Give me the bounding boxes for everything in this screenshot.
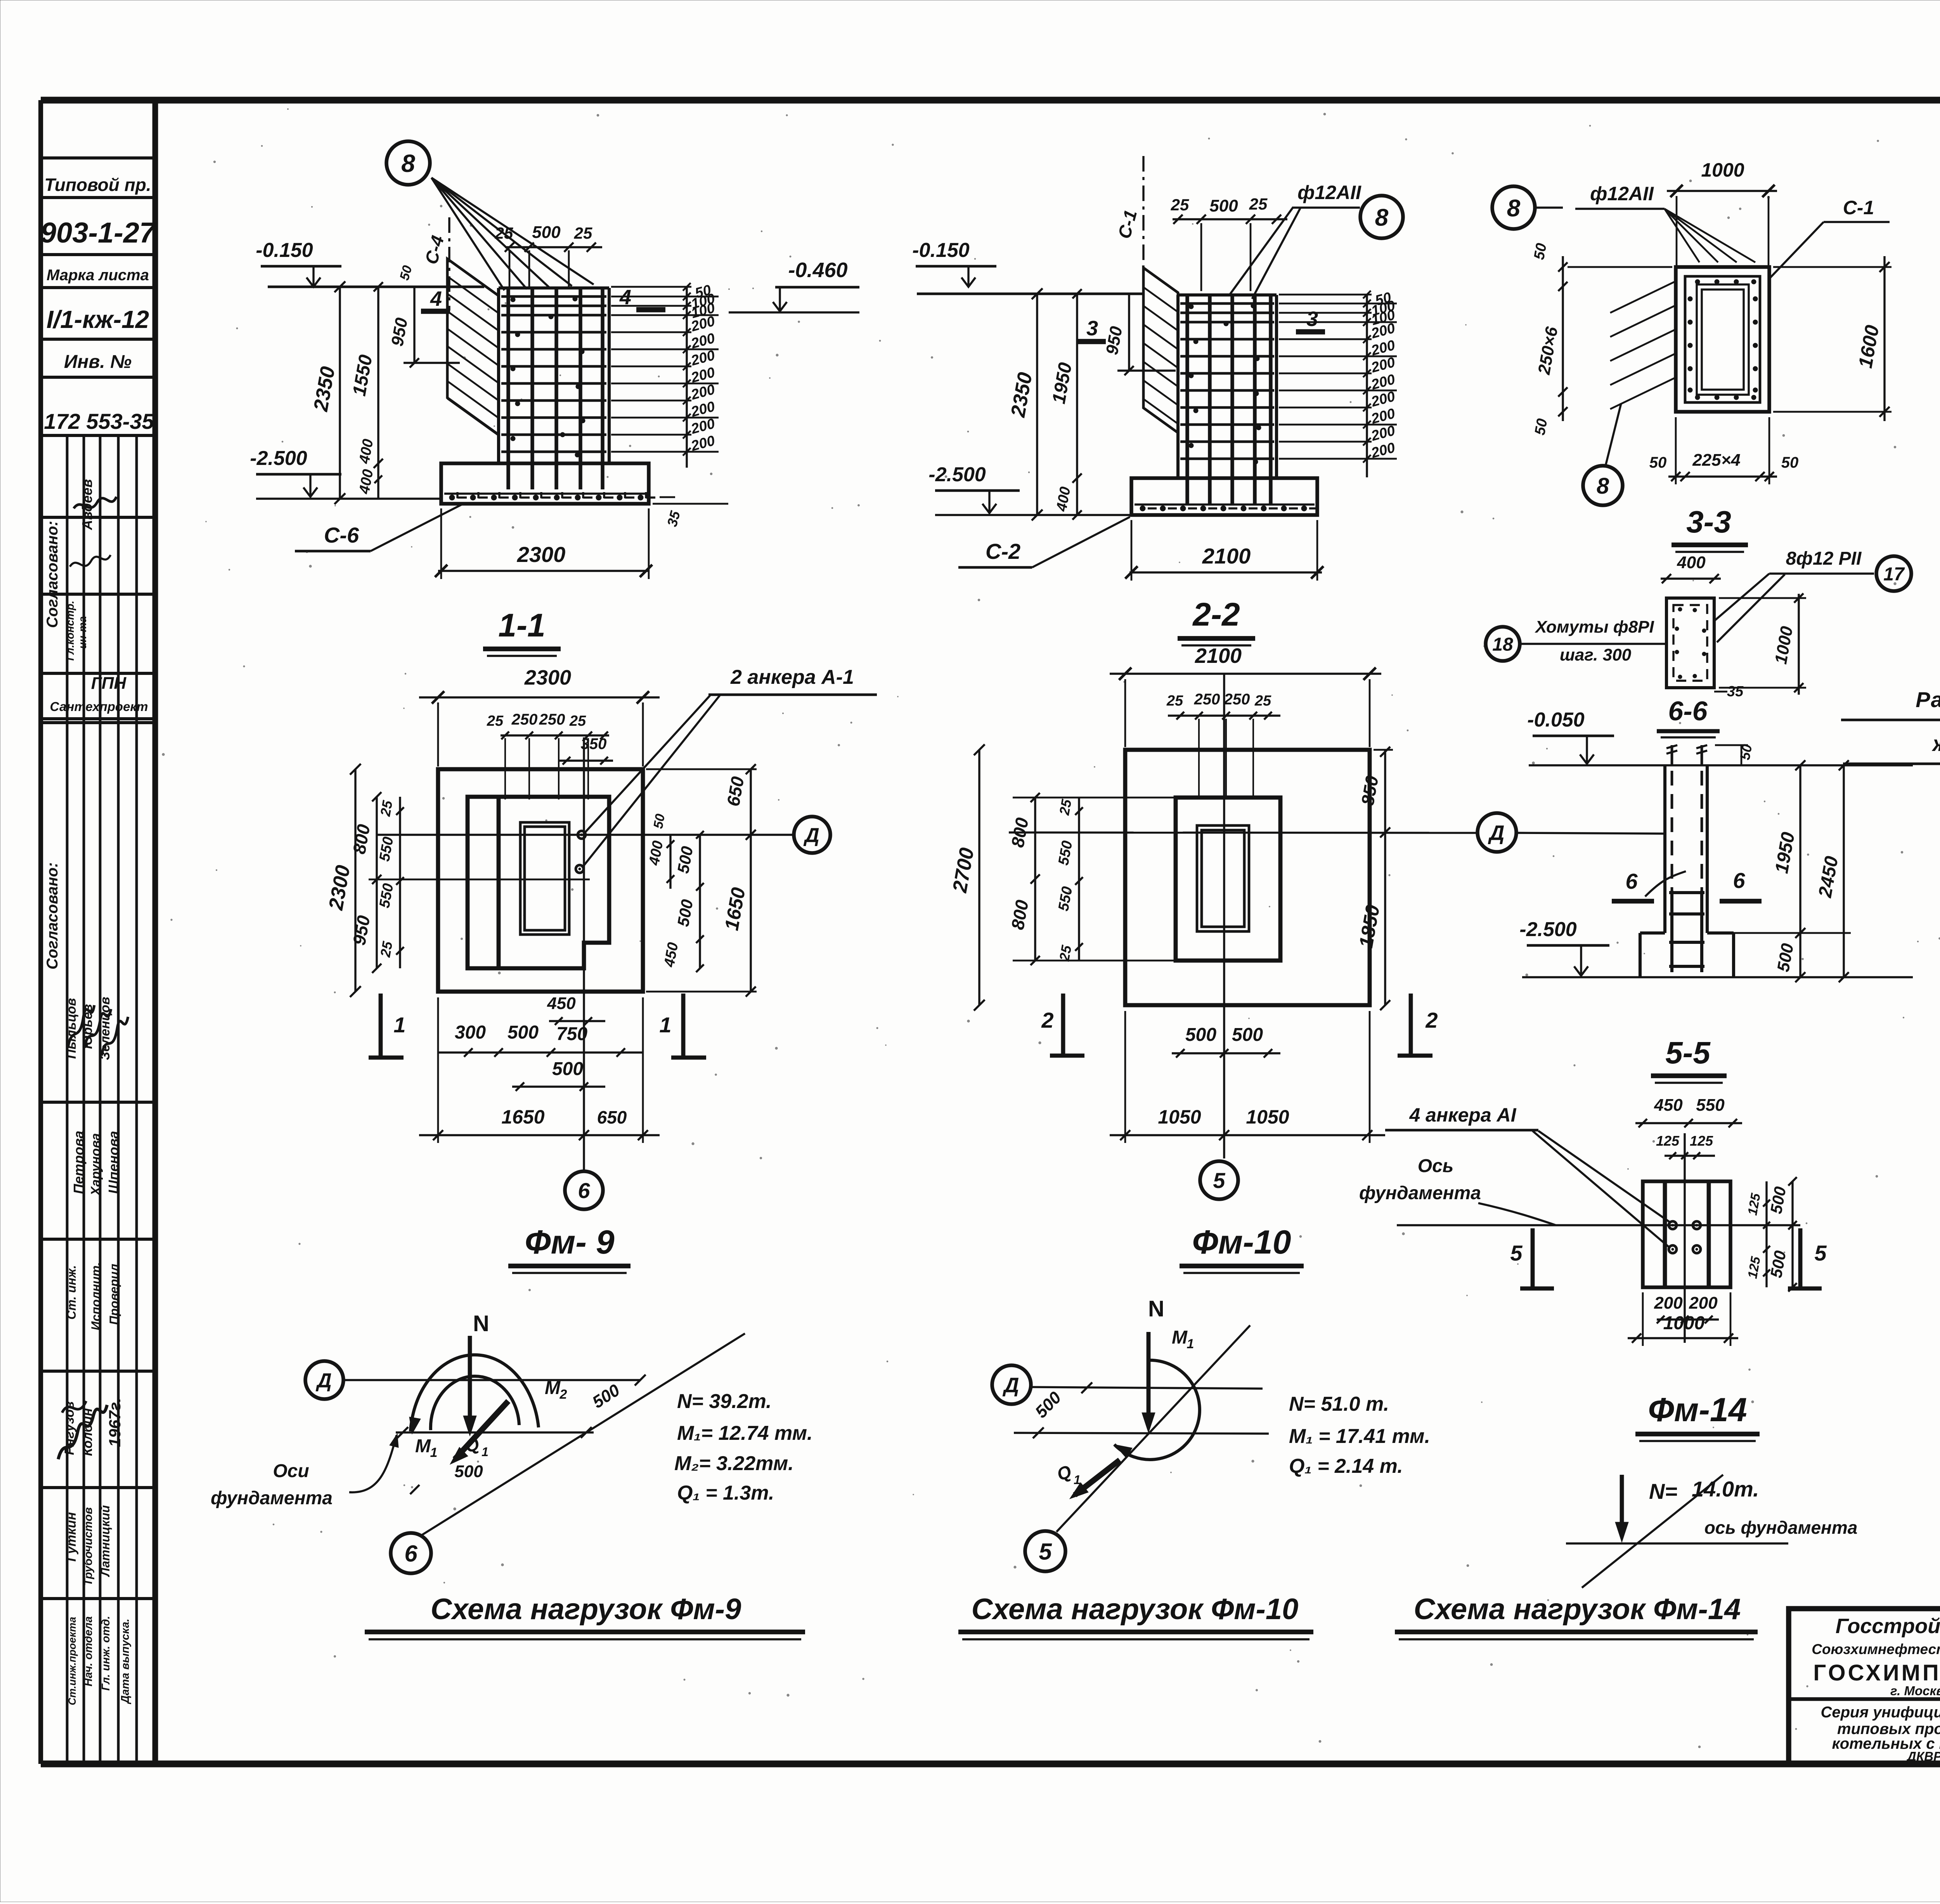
svg-text:С-6: С-6 [324,523,359,547]
svg-text:ГОСХИМПРОЕКТ: ГОСХИМПРОЕКТ [1813,1660,1940,1686]
section 1-1: soil hatch band [447,259,499,435]
svg-text:8ф12 РII: 8ф12 РII [1786,548,1862,569]
scheme Фм-9: axis circle 6 [391,1533,431,1573]
plan Фм-14: section cut 5 marks [1531,1228,1535,1288]
svg-text:5: 5 [1510,1241,1523,1265]
section 2-2: footing [1131,478,1317,515]
svg-text:М: М [415,1436,431,1457]
svg-text:Q₁ = 2.14 т.: Q₁ = 2.14 т. [1289,1455,1403,1477]
svg-text:4: 4 [619,286,631,309]
section 2-2: left vertical dims [1036,294,1038,515]
svg-text:-2.500: -2.500 [250,447,307,470]
svg-text:Схема нагрузок Фм-10: Схема нагрузок Фм-10 [972,1593,1299,1626]
svg-text:25: 25 [1166,693,1183,709]
svg-text:г. Москва: г. Москва [1890,1684,1940,1698]
plan Фм-10: section cut 2 marks [1061,994,1065,1056]
scheme Фм-9: moment arcs [411,1355,539,1431]
svg-text:Марка листа: Марка листа [47,267,149,284]
svg-text:450: 450 [547,994,576,1013]
svg-text:3: 3 [1086,317,1098,340]
svg-text:Схема нагрузок Фм-9: Схема нагрузок Фм-9 [431,1593,741,1626]
svg-text:2: 2 [1425,1008,1438,1032]
section 5-5: pedestal outline [1663,765,1666,933]
svg-text:Д: Д [803,824,819,847]
section 3-3: column section outer [1676,267,1769,412]
svg-text:1: 1 [1187,1337,1194,1351]
svg-text:Гл.констр.: Гл.констр. [64,601,76,661]
svg-text:200: 200 [1654,1294,1683,1313]
section 5-5: anchor bolts [1671,745,1673,765]
section 1-1: column outline [499,286,609,290]
svg-text:Петрова: Петрова [71,1131,87,1194]
plan Фм-14: anchor circles [1669,1221,1677,1229]
svg-text:25: 25 [377,799,396,818]
svg-text:Пыльцов: Пыльцов [64,998,79,1059]
section 1-1: rebar dots [511,297,515,302]
svg-text:С-1: С-1 [1843,197,1874,218]
svg-text:Нач. отдела: Нач. отдела [82,1616,95,1687]
svg-text:Согласовано:: Согласовано: [44,521,61,628]
scheme Фм-14: N arrow and value [1620,1475,1624,1528]
svg-text:25: 25 [1056,798,1075,817]
svg-text:250: 250 [1194,691,1220,708]
svg-text:1: 1 [659,1013,671,1037]
section 5-5: footing [1640,931,1665,935]
svg-text:50: 50 [1781,454,1799,471]
svg-text:ин-та: ин-та [76,616,88,649]
svg-text:Проверил: Проверил [107,1264,121,1325]
sidebar stamp column [41,156,155,160]
svg-text:М₁= 12.74 тм.: М₁= 12.74 тм. [677,1422,812,1444]
svg-text:ГПН: ГПН [91,674,127,693]
svg-text:6: 6 [1733,868,1745,893]
svg-text:1967г.: 1967г. [106,1398,124,1447]
section 3-3: soil hatch left [1610,282,1675,313]
svg-text:200: 200 [1689,1294,1718,1313]
section 2-2: tie spacing ladder [1366,295,1368,477]
svg-text:1650: 1650 [501,1106,544,1128]
svg-text:Д: Д [315,1370,332,1392]
plan Фм-10: column footprint [1176,798,1280,961]
plan Фм-9: left dims [354,769,356,992]
svg-text:2-2: 2-2 [1192,596,1240,633]
svg-text:4 анкера АI: 4 анкера АI [1409,1104,1516,1126]
svg-text:4: 4 [430,287,442,310]
section 1-1: tie spacing ladder [686,287,688,468]
section 3-3: callout 8 and rebar mark [1492,186,1535,229]
svg-text:2100: 2100 [1202,544,1251,568]
svg-text:Фм- 9: Фм- 9 [525,1224,614,1261]
svg-text:17: 17 [1883,564,1905,584]
svg-text:3-3: 3-3 [1686,505,1731,539]
svg-text:Расход бетона и стали н: Расход бетона и стали на монолитные [1916,687,1940,712]
svg-text:8: 8 [401,149,415,177]
title block outer [1789,1609,1940,1764]
svg-text:400: 400 [1677,553,1706,572]
svg-text:ось фундамента: ось фундамента [1704,1517,1858,1538]
plan Фм-9: opening double rect [520,822,569,935]
scheme Фм-10: axis circle 5 [1025,1531,1065,1571]
svg-text:6: 6 [578,1178,590,1203]
svg-text:250: 250 [539,711,565,728]
plan Фм-10: axis circle 5 [1200,1161,1238,1199]
svg-text:Сантехпроект: Сантехпроект [50,699,148,714]
svg-text:8: 8 [1597,473,1609,499]
plan Фм-14: axes [1397,1224,1800,1226]
svg-text:Дата выпуска.: Дата выпуска. [119,1619,132,1705]
section 3-3: left dims 250x6 [1562,256,1564,421]
svg-text:Шпенова: Шпенова [106,1131,121,1194]
sidebar signature table rows [41,516,155,519]
svg-text:Типовой пр.: Типовой пр. [44,175,151,195]
section 2-2: section cut 3 marks [1077,339,1106,344]
svg-text:фундамента: фундамента [1359,1183,1481,1203]
svg-text:С-2: С-2 [986,539,1020,564]
section 2-2: column ties [1180,302,1274,305]
plan Фм-9: axis circle 6 [565,1171,603,1209]
svg-text:Оси: Оси [273,1461,309,1481]
section 1-1: ground line [268,286,484,288]
svg-text:Ст. инж.: Ст. инж. [64,1265,78,1320]
svg-text:500: 500 [1185,1025,1216,1045]
svg-text:-2.500: -2.500 [928,463,986,486]
svg-text:125: 125 [1656,1133,1680,1149]
plan Фм-9: anchor circles [578,831,585,839]
section 5-5: rebar dashed bars [1671,771,1673,891]
svg-text:50: 50 [651,813,668,830]
svg-text:1050: 1050 [1158,1106,1201,1128]
svg-text:1: 1 [482,1445,488,1459]
scheme Фм-10: second axis line [1014,1433,1269,1434]
section 5-5: rebar ladder [1670,891,1673,972]
svg-text:8: 8 [1507,195,1521,222]
section 2-2: rebar dots [1189,304,1193,309]
svg-text:50: 50 [1649,454,1667,471]
section 5-5: axis line from Д circle [1516,833,1665,834]
svg-text:М₂= 3.22тм.: М₂= 3.22тм. [674,1452,794,1475]
svg-text:5-5: 5-5 [1665,1035,1711,1070]
svg-text:2: 2 [1041,1008,1053,1032]
plan Фм-10: left dims [978,750,980,1005]
svg-text:N= 39.2т.: N= 39.2т. [677,1390,772,1413]
section 5-5: right dims 1950 500 2450 [1799,765,1801,977]
svg-text:ф12АII: ф12АII [1297,182,1361,203]
svg-text:903-1-27: 903-1-27 [40,217,157,249]
svg-text:125: 125 [1690,1133,1713,1149]
svg-text:5: 5 [1213,1168,1225,1193]
plan Фм-9: far right dims 650 1650 [750,769,752,992]
svg-text:Q₁ = 1.3т.: Q₁ = 1.3т. [677,1482,774,1504]
plan Фм-9: outer square [438,769,643,992]
plan Фм-9: column footprint with notch [468,797,609,968]
sidebar signature scribbles [74,497,116,508]
svg-text:М: М [545,1378,561,1398]
svg-text:Согласовано:: Согласовано: [44,862,61,969]
svg-text:Трубочистов: Трубочистов [82,1507,95,1586]
scan speckle texture [931,357,933,359]
section 2-2: column vertical rebar [1185,295,1189,505]
scheme Фм-10: moment arc M1 [1114,1360,1200,1460]
svg-text:I/1-кж-12: I/1-кж-12 [47,305,149,333]
scheme Фм-9: axis Д circle and line [305,1361,343,1399]
svg-text:500: 500 [1232,1025,1263,1045]
svg-text:6-6: 6-6 [1668,696,1708,726]
svg-text:2: 2 [559,1387,567,1402]
section 3-3: inner opening [1697,284,1749,395]
section 1-1: callout circle 8 [386,141,430,185]
svg-text:500: 500 [508,1022,539,1043]
section 6-6: stirrup mark callout 18 [1486,627,1520,661]
section 3-3: right dim 1600 [1883,256,1885,421]
svg-text:25: 25 [569,713,586,729]
svg-text:М: М [1172,1327,1188,1348]
section 6-6: right dim 1000 [1798,594,1800,695]
scheme Фм-14: axis lines [1566,1542,1788,1544]
svg-text:18: 18 [1492,634,1513,655]
scheme Фм-10: slanted axis [1057,1325,1250,1532]
sheet border frame [41,97,1940,104]
svg-text:1000: 1000 [1663,1313,1705,1333]
svg-text:250: 250 [1224,691,1250,708]
section 6-6: small column section [1666,598,1714,688]
section 5-5: ground line [1529,764,1913,766]
svg-text:Д: Д [1003,1373,1019,1397]
svg-text:ДКВР: ДКВР [1906,1749,1940,1764]
section 3-3: rebar ring [1685,276,1760,402]
svg-text:Зеленцов: Зеленцов [98,997,113,1060]
title block org cell [1789,1697,1940,1701]
svg-text:25: 25 [487,713,504,729]
svg-text:железобетонные конструкции: железобетонные конструкции [1931,731,1940,756]
svg-text:1: 1 [393,1013,405,1037]
svg-text:-0.150: -0.150 [256,239,313,262]
plan Фм-10: axis Д circle [1478,813,1516,852]
svg-text:2300: 2300 [524,666,571,689]
svg-text:Госстрой СССР: Госстрой СССР [1836,1614,1940,1638]
svg-text:-0.150: -0.150 [912,239,970,262]
plan Фм-14: plan rect [1643,1181,1730,1287]
svg-text:шаг. 300: шаг. 300 [1560,645,1632,664]
svg-text:25: 25 [377,940,396,959]
section 1-1: column vertical rebar [506,288,510,489]
svg-text:Серия унифицированных: Серия унифицированных [1820,1704,1940,1721]
scheme Фм-10: axis Д circle and line [992,1365,1031,1404]
plan Фм-10: axes [1009,832,1478,833]
scheme Фм-9: slanted axis [421,1333,745,1535]
section 2-2: soil hatch band [1143,268,1178,433]
svg-text:300: 300 [455,1022,486,1043]
svg-text:Д: Д [1488,821,1505,844]
svg-text:25: 25 [495,224,513,242]
svg-text:25: 25 [1254,693,1271,709]
svg-text:Латницкий: Латницкий [98,1505,112,1577]
svg-text:1: 1 [430,1445,438,1460]
section 1-1: section cut 4 marks [421,309,450,314]
plan Фм-14: right dims [1765,1181,1767,1287]
svg-text:250: 250 [511,711,538,728]
svg-text:35: 35 [1727,683,1744,700]
section 3-3: callout 8 bottom [1583,466,1623,505]
svg-text:5: 5 [1814,1241,1827,1265]
svg-text:50: 50 [1531,242,1550,261]
svg-text:ф12АII: ф12АII [1590,183,1654,205]
svg-text:25: 25 [1171,196,1189,214]
svg-text:N=: N= [1649,1479,1677,1503]
svg-text:М₁ = 17.41 тм.: М₁ = 17.41 тм. [1289,1425,1430,1448]
plan Фм-9: right dims 50 400 500 500 450 [669,835,671,889]
svg-text:1-1: 1-1 [498,607,545,643]
svg-text:8: 8 [1375,204,1389,231]
sidebar signature table verticals [66,435,69,1764]
svg-text:1000: 1000 [1701,159,1744,181]
sidebar right edge [152,100,158,1764]
svg-text:-2.500: -2.500 [1519,918,1577,941]
svg-text:Фм-14: Фм-14 [1648,1391,1747,1429]
svg-text:3: 3 [1306,307,1318,331]
svg-text:-0.050: -0.050 [1527,709,1585,731]
svg-text:225×4: 225×4 [1692,451,1741,470]
section 1-1: left vertical dims 2350/1550/950/400 [339,287,341,499]
section 1-1: rebar fan leader lines [431,178,504,290]
svg-text:750: 750 [556,1024,587,1044]
svg-text:1050: 1050 [1246,1106,1289,1128]
plan Фм-9: axes [377,834,793,836]
svg-text:14.0т.: 14.0т. [1692,1477,1759,1501]
svg-text:25: 25 [1249,195,1268,213]
svg-text:Хомуты ф8РI: Хомуты ф8РI [1534,617,1654,636]
plan Фм-9: axis Д circle [794,817,830,853]
svg-text:Ось: Ось [1418,1156,1454,1176]
svg-text:50: 50 [1532,417,1551,436]
svg-text:450: 450 [1654,1096,1683,1115]
svg-text:фундамента: фундамента [211,1488,333,1509]
svg-text:Гл. инж. отд.: Гл. инж. отд. [100,1616,112,1691]
svg-text:650: 650 [597,1107,627,1127]
svg-text:500: 500 [1209,196,1238,215]
svg-text:5: 5 [1039,1539,1052,1565]
svg-text:500: 500 [552,1059,583,1079]
svg-text:2 анкера А-1: 2 анкера А-1 [730,666,854,688]
plan Фм-9: inner thick verticals [497,797,501,968]
svg-text:Исполнит.: Исполнит. [89,1262,103,1330]
svg-text:2100: 2100 [1195,644,1242,668]
plan Фм-10: right dims 850 1850 [1384,750,1386,1005]
svg-text:Союзхимнефтестройпроект: Союзхимнефтестройпроект [1812,1641,1940,1657]
svg-text:2300: 2300 [517,542,566,567]
svg-text:N: N [1148,1296,1164,1321]
section 1-1: footing [441,463,649,504]
svg-text:500: 500 [454,1462,483,1481]
svg-text:N: N [473,1311,489,1336]
section 1-1: bottom dim 2300 [438,570,648,572]
svg-text:-0.460: -0.460 [788,258,847,282]
svg-text:Ст.инж.проекта: Ст.инж.проекта [66,1617,78,1705]
svg-text:Харунова: Харунова [88,1133,103,1197]
svg-text:Инв. №: Инв. № [64,352,132,372]
section 1-1: column ties [501,295,606,298]
scheme Фм-9: second axis line [396,1431,594,1433]
svg-text:25: 25 [574,224,592,242]
svg-text:550: 550 [1696,1096,1725,1115]
plan Фм-9: section cut 1 marks [379,994,383,1058]
plan Фм-10: opening double rect [1197,825,1249,931]
plan Фм-10: outer square [1125,750,1370,1005]
svg-text:172 553-35: 172 553-35 [44,409,154,434]
svg-text:N= 51.0 т.: N= 51.0 т. [1289,1393,1389,1415]
svg-text:500: 500 [532,223,561,242]
section 2-2: bottom dim 2100 [1129,571,1322,573]
svg-text:Схема нагрузок Фм-14: Схема нагрузок Фм-14 [1414,1593,1741,1626]
section 2-2: column outline [1178,293,1277,297]
svg-text:6: 6 [1625,869,1638,893]
svg-text:6: 6 [404,1541,417,1567]
svg-text:Гуткин: Гуткин [64,1512,79,1562]
svg-text:Фм-10: Фм-10 [1192,1224,1291,1261]
